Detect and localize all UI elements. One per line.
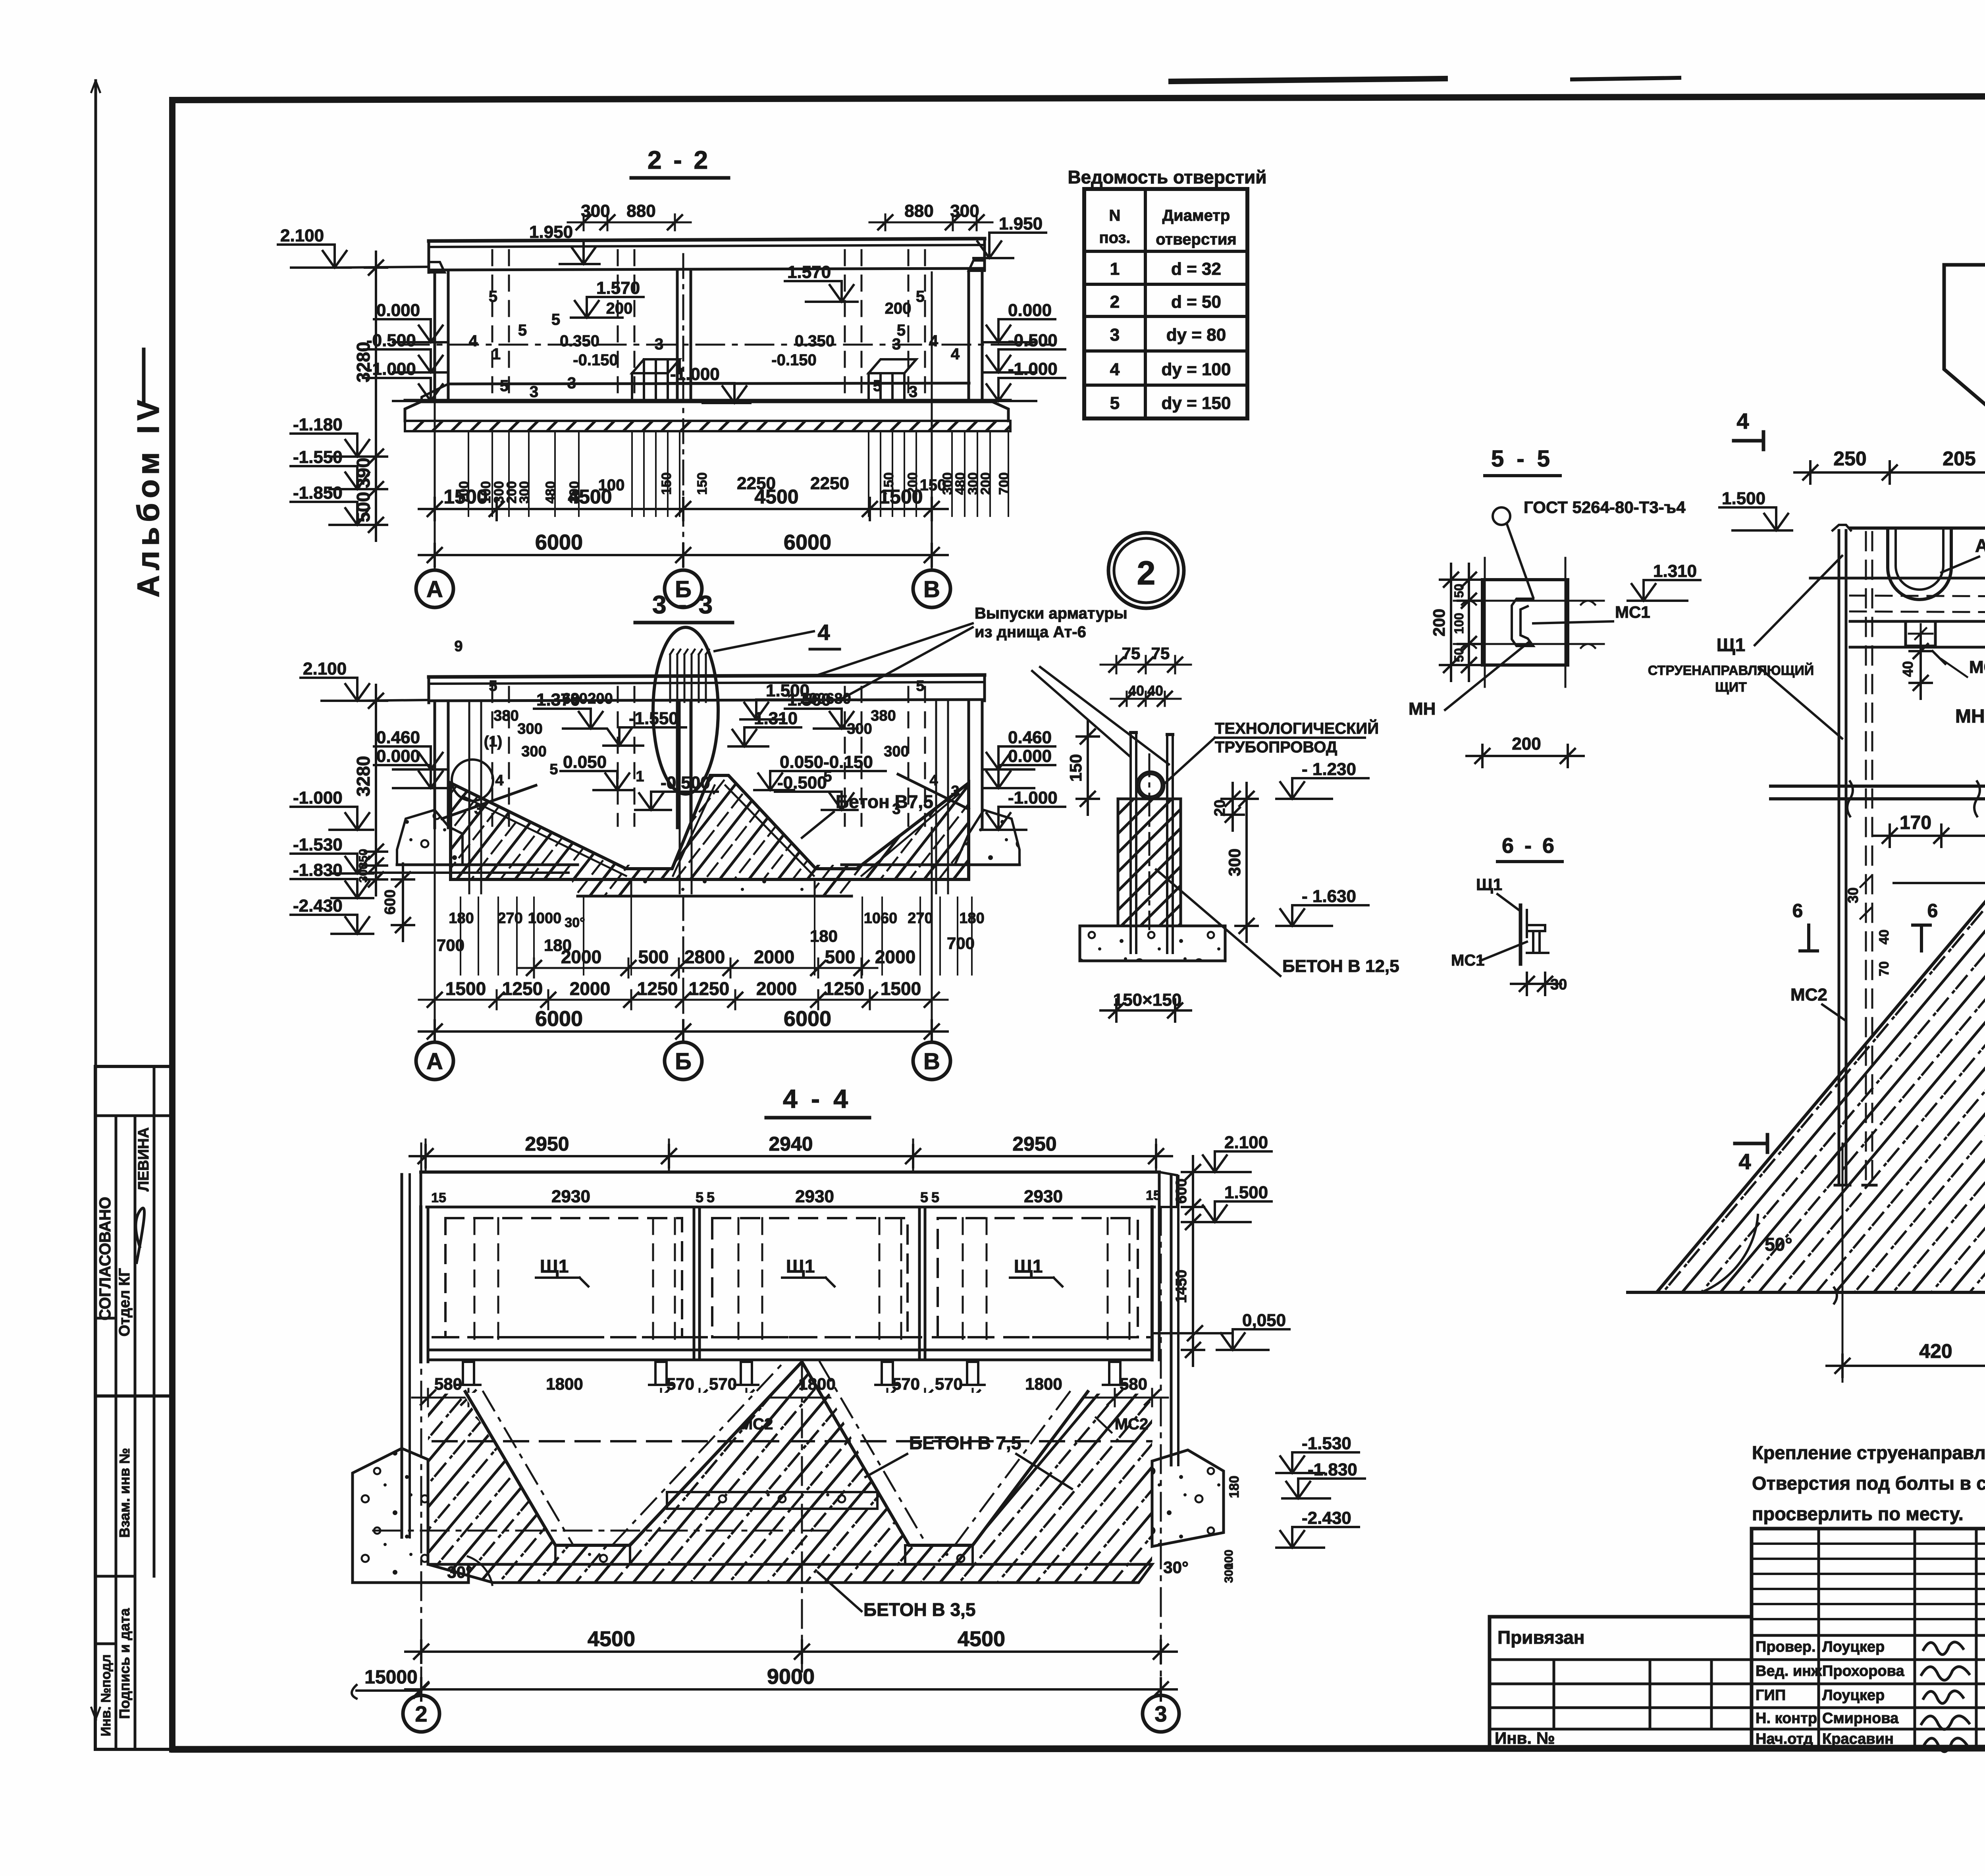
svg-text:200: 200 [606,300,633,317]
grid bubble V section 2-2 [913,570,950,607]
svg-text:-0.150: -0.150 [573,351,618,369]
grid bubble V section 3-3 [913,1042,950,1080]
svg-text:А: А [426,576,443,602]
svg-text:3: 3 [909,383,917,401]
svg-text:2940: 2940 [769,1133,813,1155]
svg-text:5: 5 [823,768,832,785]
node 1 dim 170 380 [1874,835,1985,837]
svg-text:40: 40 [1900,661,1916,677]
svg-text:500: 500 [638,947,669,967]
svg-text:9000: 9000 [767,1665,815,1689]
svg-text:-0.500: -0.500 [1008,331,1058,350]
svg-text:Крепление струенаправляющих: Крепление струенаправляющих щитов Щ1 про… [1752,1442,1985,1463]
svg-text:МС1: МС1 [1615,603,1650,621]
section 2-2 dim row 6000 [419,554,948,556]
detail 2 dim 150 left [1087,721,1089,815]
svg-text:1: 1 [636,768,644,785]
svg-text:500: 500 [353,492,374,523]
svg-text:3 - 3: 3 - 3 [652,590,715,619]
svg-text:6000: 6000 [535,1007,583,1031]
svg-text:680: 680 [562,690,587,707]
svg-text:1250: 1250 [502,978,543,999]
section 2-2 extension verticals below base [468,433,469,516]
svg-text:Ведомость отверстий: Ведомость отверстий [1068,167,1266,187]
section 4-4 top dim row 2950-2940-2950 [410,1155,1172,1157]
section 2-2 base hatched strip [405,421,1010,431]
section 3-3 hidden dashed wall lines [491,687,493,826]
node 1 left panel Shch1 [1838,530,1840,1185]
svg-text:40: 40 [1128,683,1144,699]
svg-text:50: 50 [1452,648,1466,662]
svg-text:-1.550: -1.550 [629,709,678,728]
node 1 section mark 4 bottom-left [1735,1142,1767,1145]
svg-text:580: 580 [434,1375,462,1393]
detail 5-5 square plate [1482,580,1568,665]
grid bubble B section 3-3 [665,1042,702,1080]
svg-text:600: 600 [382,889,399,914]
svg-text:1500: 1500 [879,486,923,508]
svg-text:200: 200 [588,690,613,707]
svg-text:БЕТОН В 3,5: БЕТОН В 3,5 [863,1599,975,1620]
svg-text:-1.530: -1.530 [1302,1434,1351,1453]
svg-text:МН: МН [1955,706,1985,727]
svg-text:2000: 2000 [570,978,610,999]
svg-text:75: 75 [1122,644,1141,663]
node 1 column top outline [1944,265,1985,528]
svg-text:150: 150 [1066,754,1085,782]
svg-text:1250: 1250 [689,978,729,999]
svg-text:100: 100 [1452,613,1466,634]
svg-text:1500: 1500 [881,978,921,999]
svg-text:- 1.230: - 1.230 [1302,760,1356,779]
section 4-4 bottom dims 4500 [405,1650,1177,1653]
section 3-3 dim row 2000-500 [518,967,877,969]
svg-text:Щ1: Щ1 [1717,634,1745,655]
section 4-4 left foundation block speckled [353,1448,468,1583]
svg-text:150: 150 [659,472,674,495]
svg-text:-1.000: -1.000 [366,359,416,379]
svg-text:30: 30 [1845,887,1861,903]
svg-text:9: 9 [454,638,463,655]
svg-text:-1.830: -1.830 [293,860,343,880]
svg-text:570: 570 [667,1375,694,1393]
title block privyazan box [1490,1617,1752,1748]
section 4-4 buried wall verticals [401,1174,403,1537]
grid bubble 2 section 4-4 [403,1695,439,1732]
svg-text:3: 3 [1110,325,1120,345]
svg-text:1.950: 1.950 [999,214,1043,233]
svg-text:2930: 2930 [1024,1187,1063,1206]
hole schedule table [1084,189,1247,418]
section 4-4 partition walls [693,1209,696,1360]
svg-text:3: 3 [655,335,663,353]
svg-text:-1.180: -1.180 [293,415,343,434]
detail 2 vypuski leaders [1032,671,1130,756]
node 1 level line 1.310 slab [1810,577,1985,580]
svg-text:570: 570 [892,1375,920,1393]
svg-text:2.100: 2.100 [303,659,347,679]
section 4-4 dim row 580-1800 [412,1397,1168,1399]
svg-text:5: 5 [873,377,882,395]
svg-text:БЕТОН В 12,5: БЕТОН В 12,5 [1282,956,1399,976]
svg-text:1800: 1800 [546,1375,583,1393]
svg-text:5: 5 [696,1189,703,1205]
section 3-3 base concrete strip speckled [397,810,463,865]
section 4-4 MC2 connectors [463,1362,474,1385]
detail 5-5 center lines [1454,600,1604,602]
svg-text:2250: 2250 [810,474,849,493]
section 4-4 central pyramid hatched [627,1362,909,1545]
svg-text:1500: 1500 [443,486,488,508]
svg-text:1.500: 1.500 [1722,489,1765,508]
svg-text:5: 5 [920,1189,928,1205]
svg-text:5: 5 [916,678,924,694]
svg-text:1500: 1500 [445,978,486,999]
svg-text:300: 300 [581,201,610,221]
svg-text:30: 30 [1550,976,1567,993]
svg-text:4: 4 [951,345,960,363]
svg-text:5: 5 [551,311,560,328]
svg-text:270: 270 [497,910,522,927]
svg-text:1.500: 1.500 [1224,1183,1268,1202]
node 1 U loop left At4 [1888,530,1951,600]
section 2-2 grid verticals [434,272,436,570]
svg-text:2800: 2800 [684,947,725,967]
detail 2 base slab speckled [1080,926,1225,961]
svg-text:4: 4 [1738,1149,1751,1174]
section 3-3 dim row 1500-1250 [419,999,948,1001]
node 1 section marks 6 [1807,925,1810,951]
svg-text:5 - 5: 5 - 5 [1491,446,1553,472]
section 4-4 dashed level lines [433,1336,1151,1338]
svg-text:3: 3 [892,801,900,817]
svg-text:ЩИТ: ЩИТ [1715,680,1747,695]
svg-text:300: 300 [884,743,909,760]
section 2-2 water level dashdot [401,344,1052,346]
svg-text:СОГЛАСОВАНО: СОГЛАСОВАНО [96,1197,114,1320]
svg-text:1250: 1250 [637,978,678,999]
svg-text:4 - 4: 4 - 4 [783,1084,851,1113]
svg-text:5: 5 [931,1189,939,1205]
svg-text:4: 4 [929,772,938,789]
svg-text:Выпуски арматуры: Выпуски арматуры [975,605,1127,622]
svg-text:ТЕХНОЛОГИЧЕСКИЙ: ТЕХНОЛОГИЧЕСКИЙ [1215,719,1379,737]
svg-text:15: 15 [1146,1188,1161,1203]
svg-text:600: 600 [1173,1178,1190,1203]
svg-text:300: 300 [517,481,532,504]
svg-text:отверстия: отверстия [1156,231,1237,248]
node 1 section mark 4 top-left [1734,439,1763,443]
svg-text:Взам. инв №: Взам. инв № [116,1448,133,1538]
svg-text:3280: 3280 [353,342,374,382]
svg-text:МС2: МС2 [1790,985,1827,1005]
section 3-3 top slab [429,675,985,677]
svg-text:150: 150 [920,476,946,494]
svg-text:2930: 2930 [551,1187,590,1206]
svg-text:250: 250 [1833,447,1866,470]
svg-text:поз.: поз. [1099,229,1130,247]
svg-text:2: 2 [1137,554,1156,592]
svg-text:6000: 6000 [784,530,831,554]
svg-text:0.460: 0.460 [1008,728,1052,747]
section 3-3 dim row 6000 [419,1030,948,1033]
svg-text:В: В [923,576,940,602]
svg-text:МН: МН [1409,699,1436,719]
section 2-2 dim row 1500-4500 [419,508,948,510]
svg-text:0.000: 0.000 [376,746,420,766]
svg-text:-0.500: -0.500 [777,773,827,792]
svg-text:6: 6 [1792,900,1803,922]
section 3-3 rebar outlets above mid wall [669,654,671,702]
svg-text:Провер.: Провер. [1756,1639,1816,1655]
detail 6-6 bracket [1519,905,1522,964]
section 3-3 bottom hatch strips [463,865,631,896]
section 2-2 tank floor [448,383,969,384]
svg-text:300: 300 [847,721,872,737]
svg-text:1450: 1450 [1173,1270,1190,1303]
svg-text:6000: 6000 [535,530,583,554]
detail 2 dim 150x150 [1100,1009,1191,1012]
svg-text:880: 880 [626,201,655,221]
svg-text:70: 70 [1877,961,1892,976]
svg-text:-1.000: -1.000 [293,788,343,808]
svg-text:3: 3 [567,374,576,392]
svg-text:50°: 50° [1765,1234,1792,1255]
svg-text:0.460: 0.460 [376,728,420,747]
svg-text:2930: 2930 [795,1187,834,1206]
svg-text:ТРУБОПРОВОД: ТРУБОПРОВОД [1215,738,1337,756]
svg-text:700: 700 [947,934,975,952]
svg-text:0.350: 0.350 [560,332,599,350]
svg-text:-1.550: -1.550 [293,447,343,467]
svg-text:-2.430: -2.430 [293,896,343,916]
detail 5-5 channel MC1 [1512,599,1533,646]
svg-text:5: 5 [489,288,497,305]
svg-text:Красавин: Красавин [1822,1731,1894,1747]
section 4-4 mid speckled strip [667,1492,877,1509]
node 1 dim row 420-180-450 [1827,1365,1985,1367]
svg-text:420: 420 [1919,1340,1952,1362]
section 4-4 hopper 2 white [829,1393,1087,1545]
svg-text:-1.850: -1.850 [293,483,343,503]
svg-text:1: 1 [1110,259,1120,279]
svg-text:880: 880 [904,201,933,221]
svg-text:4500: 4500 [568,486,612,508]
svg-text:3: 3 [1154,1701,1167,1726]
outer trim line left [94,81,97,1719]
section 3-3 walls [434,701,436,828]
svg-text:150: 150 [695,472,710,495]
svg-text:-1.000: -1.000 [1008,788,1058,808]
svg-text:30°: 30° [447,1563,472,1581]
section 4-4 panel bottom lines [428,1349,1152,1352]
section 4-4 outer walls [419,1207,422,1362]
svg-text:2.100: 2.100 [280,226,324,245]
svg-text:570: 570 [709,1375,737,1393]
svg-text:из днища Ат-6: из днища Ат-6 [975,623,1086,641]
svg-text:-1.000: -1.000 [1008,359,1058,379]
title block signature grid [1752,1529,1985,1748]
svg-text:2: 2 [1110,292,1120,312]
svg-text:5: 5 [897,322,906,339]
svg-text:d = 32: d = 32 [1171,259,1221,279]
svg-text:6: 6 [1927,900,1938,922]
svg-text:3280: 3280 [353,756,374,796]
svg-text:Диаметр: Диаметр [1162,207,1230,224]
svg-text:170: 170 [1900,812,1931,833]
svg-text:Щ1: Щ1 [786,1256,815,1276]
node 1 base line [1628,1291,1985,1294]
section 2-2 left vertical dim 3280 [375,252,377,541]
node 1 triangle left hatched [1657,872,1985,1292]
svg-text:МС1: МС1 [1969,657,1985,677]
node 1 dashed slab lines [1850,596,1985,598]
svg-text:3: 3 [530,383,538,401]
detail 2 column hatched [1118,799,1181,926]
svg-text:Смирнова: Смирнова [1822,1710,1899,1727]
section 3-3 hopper lining inner lines [463,796,626,876]
svg-text:-1.530: -1.530 [293,835,343,854]
detail 5-5 dims [1450,564,1452,681]
svg-text:200: 200 [1430,609,1448,636]
svg-text:1.570: 1.570 [596,278,640,298]
svg-text:dу = 100: dу = 100 [1162,360,1231,379]
svg-text:N: N [1109,207,1121,224]
svg-text:Щ1: Щ1 [540,1256,569,1276]
grid bubble B section 2-2 [665,570,702,607]
svg-text:Инв. №: Инв. № [1495,1729,1555,1747]
svg-text:Отверстия под болты в соед: Отверстия под болты в соединительных эле… [1752,1473,1985,1494]
svg-text:6000: 6000 [784,1007,831,1031]
svg-text:580: 580 [1120,1375,1147,1393]
svg-text:Нач.отд: Нач.отд [1756,1731,1813,1747]
section 3-3 extension verticals below base [460,897,461,975]
node 1 horizontal member [1850,620,1906,623]
detail 2 rebar verticals [1129,733,1132,953]
svg-text:0.050: 0.050 [563,752,607,772]
grid bubble A section 2-2 [416,570,453,607]
svg-text:4500: 4500 [754,486,798,508]
svg-text:680: 680 [826,690,851,707]
section 3-3 mass leader edges [442,785,536,819]
svg-text:205: 205 [1943,447,1975,470]
svg-text:В: В [923,1049,940,1074]
svg-text:-2.430: -2.430 [1302,1508,1351,1528]
svg-text:390: 390 [353,458,374,488]
svg-text:50: 50 [1452,584,1466,598]
svg-text:1000: 1000 [528,910,562,927]
svg-text:2 - 2: 2 - 2 [648,146,710,174]
svg-text:1.950: 1.950 [529,222,573,242]
scan streak top [1171,79,1445,81]
svg-text:Лоуцкер: Лоуцкер [1822,1639,1885,1655]
section 3-3 detail leader 4 [715,631,814,651]
svg-text:ГИП: ГИП [1756,1687,1786,1704]
svg-text:1: 1 [492,345,501,363]
svg-text:75: 75 [1151,644,1170,663]
svg-text:Ат4: Ат4 [1975,535,1985,556]
detail 2 dims top [1100,664,1191,666]
svg-text:0.000: 0.000 [1008,301,1052,320]
svg-text:Щ1: Щ1 [1014,1256,1043,1276]
svg-text:200: 200 [885,300,912,317]
svg-text:Привязан: Привязан [1497,1627,1585,1648]
svg-text:200: 200 [978,472,993,495]
svg-text:Б: Б [675,1049,692,1074]
section 3-3 rebar verticals wall dowels [468,702,470,893]
svg-text:0.350: 0.350 [795,332,834,350]
svg-text:Отдел КГ: Отдел КГ [116,1268,133,1336]
section 4-4 panel inner dashed verticals [474,1218,476,1348]
section 3-3 detail oval [653,627,718,794]
svg-text:30°: 30° [1163,1558,1189,1577]
svg-text:ЛЕВИНА: ЛЕВИНА [135,1127,152,1192]
svg-text:40: 40 [1877,929,1892,945]
svg-text:150×150: 150×150 [1113,990,1182,1010]
svg-text:5: 5 [707,1189,715,1205]
section 2-2 hidden wall lines dashed [491,250,493,401]
svg-text:200: 200 [1512,734,1541,754]
svg-text:1060: 1060 [864,910,898,927]
svg-text:2: 2 [415,1701,427,1726]
section 3-3 hatched mass zigzag profile [451,775,969,879]
svg-text:5: 5 [489,678,497,694]
svg-text:1.570: 1.570 [787,262,831,282]
svg-text:0.000: 0.000 [1008,746,1052,766]
svg-text:5: 5 [549,761,558,778]
svg-text:0,050: 0,050 [1242,1311,1286,1330]
svg-text:300: 300 [357,863,370,883]
node 1 dim row 250-205-200-250 [1794,471,1985,474]
svg-text:Инв. №подл: Инв. №подл [98,1654,114,1737]
svg-text:480: 480 [543,481,558,504]
section 4-4 hopper outlines [465,1362,1088,1545]
section 4-4 top dim extension lines [425,1139,427,1171]
svg-text:-0.500: -0.500 [661,773,710,792]
section 4-4 top slab band [421,1170,1159,1174]
svg-text:4: 4 [817,620,830,645]
detail 2 bubble [1108,533,1184,608]
svg-text:2000: 2000 [561,947,601,967]
svg-text:5: 5 [1110,393,1120,413]
svg-text:4: 4 [929,332,939,350]
detail 2 column centerline [1149,754,1151,929]
svg-text:dу = 80: dу = 80 [1166,325,1226,345]
svg-text:БЕТОН В 7,5: БЕТОН В 7,5 [909,1433,1021,1453]
svg-text:300: 300 [517,721,542,737]
svg-text:700: 700 [996,472,1012,495]
svg-text:4500: 4500 [588,1627,635,1651]
svg-text:Альбом IV: Альбом IV [131,395,166,598]
svg-text:Бетон В7,5: Бетон В7,5 [836,791,933,812]
svg-text:3: 3 [951,783,959,800]
svg-text:ГОСТ 5264-80-Т3-ъ4: ГОСТ 5264-80-Т3-ъ4 [1524,498,1686,517]
svg-text:300: 300 [950,201,979,221]
svg-text:Прохорова: Прохорова [1822,1663,1904,1679]
svg-text:1.310: 1.310 [1653,561,1697,581]
svg-text:0.000: 0.000 [376,301,420,320]
svg-text:380: 380 [493,708,518,724]
section 2-2 top small dims [568,222,691,224]
svg-text:500: 500 [825,947,856,967]
svg-text:-0.500: -0.500 [366,331,416,350]
svg-text:- 1.630: - 1.630 [1302,887,1356,906]
node 1 small hatch marks under beam [1933,651,1945,664]
section 2-2 pipe sleeves pos3 right [869,359,916,373]
section 4-4 panels Shch1 dashed [445,1218,682,1337]
svg-text:4: 4 [1736,409,1749,434]
section 4-4 bottom band [428,1564,1152,1583]
